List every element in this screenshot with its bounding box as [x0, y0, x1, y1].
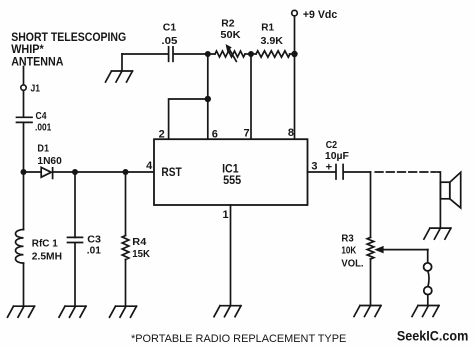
svg-text:3: 3 — [311, 161, 317, 173]
wire antenna lead — [23, 67, 25, 85]
svg-text:RfC 1: RfC 1 — [32, 238, 58, 250]
node R4 junction — [123, 169, 129, 175]
svg-text:7: 7 — [243, 128, 249, 140]
resistor R4 — [122, 236, 129, 260]
wire speaker drop — [438, 172, 441, 228]
svg-text:1N60: 1N60 — [37, 155, 62, 167]
svg-text:1: 1 — [222, 209, 228, 221]
svg-text:C4: C4 — [36, 110, 47, 122]
wire R3 branch — [370, 172, 372, 237]
wire R1 to +9 node — [290, 53, 295, 55]
capacitor C3 — [68, 237, 83, 242]
wire +9V riser — [294, 16, 296, 54]
connector J1 — [21, 85, 26, 90]
svg-text:R4: R4 — [132, 236, 146, 248]
node +9V junction — [291, 51, 297, 57]
label D1 1N60 — [37, 142, 62, 167]
wire pin 6 — [207, 54, 209, 139]
svg-text:8: 8 — [288, 127, 294, 139]
ground top left — [106, 54, 133, 82]
svg-text:VOL.: VOL. — [341, 257, 363, 269]
capacitor C4 — [17, 117, 33, 122]
potentiometer R3 — [367, 237, 374, 259]
wire R4 branch — [125, 172, 127, 236]
ground under R4 — [110, 306, 137, 317]
power terminal +9 Vdc — [292, 10, 298, 16]
wire R4 node to pin 4 — [126, 171, 155, 173]
wire R2 to R1 — [245, 53, 256, 55]
ground under C3 — [59, 306, 86, 317]
capacitor C2 — [336, 165, 343, 180]
wire C1 to R2 — [174, 53, 215, 55]
node pin2/pin6 junction — [205, 96, 211, 102]
wire J1 to C4 — [23, 91, 25, 117]
svg-text:555: 555 — [223, 173, 241, 187]
capacitor C1 — [169, 47, 173, 62]
label R3 10K VOL. — [341, 232, 363, 269]
jack plug circle 1 — [424, 263, 432, 271]
wire C4 to signal node — [23, 123, 25, 172]
ground under jack — [412, 306, 439, 317]
wire R4 to ground — [125, 260, 127, 307]
jack plug circle 2 — [424, 287, 432, 295]
svg-text:50K: 50K — [220, 29, 241, 41]
svg-text:2.5MH: 2.5MH — [32, 250, 62, 262]
label C3 .01 — [87, 234, 101, 257]
svg-text:*PORTABLE RADIO REPLACEMENT TY: *PORTABLE RADIO REPLACEMENT TYPE — [131, 333, 347, 345]
label R2 50K — [220, 18, 241, 41]
wire dashed to speaker — [375, 171, 436, 173]
node pin6 top junction — [205, 51, 211, 57]
svg-text:+: + — [326, 161, 332, 173]
wire D1 to C3 node — [53, 171, 75, 173]
diode D1 — [41, 167, 52, 178]
svg-text:4: 4 — [146, 160, 153, 172]
inductor RFC1 — [16, 230, 24, 264]
potentiometer R2 — [215, 45, 245, 62]
svg-text:D1: D1 — [37, 142, 49, 154]
wiper arrow R3 — [375, 246, 428, 263]
svg-text:RST: RST — [161, 165, 182, 179]
svg-text:10K: 10K — [341, 244, 356, 256]
wire RFC1 to ground — [23, 263, 25, 306]
timer IC1 555 — [154, 139, 308, 205]
wire between jack circles — [428, 271, 429, 287]
ground under speaker — [424, 228, 451, 239]
label R1 3.9K — [261, 22, 284, 48]
wire pin 7 — [250, 54, 252, 139]
wire pin 1 to ground — [230, 205, 232, 306]
svg-text:10µF: 10µF — [325, 150, 350, 162]
svg-text:ANTENNA: ANTENNA — [11, 54, 63, 68]
wire pin 2 — [169, 99, 208, 139]
speaker LS1 — [440, 172, 460, 208]
resistor R1 — [256, 51, 290, 57]
wire node to D1 — [24, 171, 41, 173]
svg-text:3.9K: 3.9K — [261, 35, 284, 47]
svg-text:SeekIC.com: SeekIC.com — [397, 329, 468, 344]
ground under R3 — [354, 306, 381, 317]
node antenna junction — [21, 169, 27, 175]
label C4 .001 — [35, 110, 51, 134]
svg-text:15K: 15K — [132, 248, 150, 260]
node pin7 top junction — [248, 51, 254, 57]
label RfC 1 2.5MH — [32, 238, 62, 263]
svg-text:.01: .01 — [87, 245, 101, 257]
antenna label text — [11, 30, 126, 68]
wire C3 branch — [74, 172, 76, 237]
svg-text:R3: R3 — [341, 232, 353, 244]
wire jack to ground — [427, 295, 429, 306]
ground under RFC1 — [8, 306, 35, 317]
svg-text:.05: .05 — [161, 35, 177, 47]
wire C3 to ground — [74, 243, 76, 306]
label C1 .05 — [161, 21, 177, 47]
wire C2 to R3 corner — [344, 171, 371, 173]
wire pin 3 to C2 — [308, 171, 336, 173]
node C3 junction — [72, 169, 78, 175]
wire pin 8 — [294, 54, 296, 139]
svg-text:.001: .001 — [35, 121, 51, 133]
label C2 10uF + — [325, 139, 350, 173]
label R4 15K — [132, 236, 150, 260]
svg-text:R1: R1 — [261, 22, 274, 34]
svg-text:R2: R2 — [221, 18, 234, 30]
wire C3 node to R4 node — [75, 171, 126, 173]
svg-text:+9 Vdc: +9 Vdc — [303, 9, 337, 21]
svg-text:J1: J1 — [31, 83, 41, 95]
wire ground to C1 — [122, 53, 168, 55]
wire RFC1 branch — [23, 172, 25, 230]
ground under pin 1 — [214, 306, 241, 317]
wire R3 to ground — [370, 259, 372, 306]
svg-text:C1: C1 — [163, 21, 177, 33]
label IC1 555 — [222, 162, 241, 188]
